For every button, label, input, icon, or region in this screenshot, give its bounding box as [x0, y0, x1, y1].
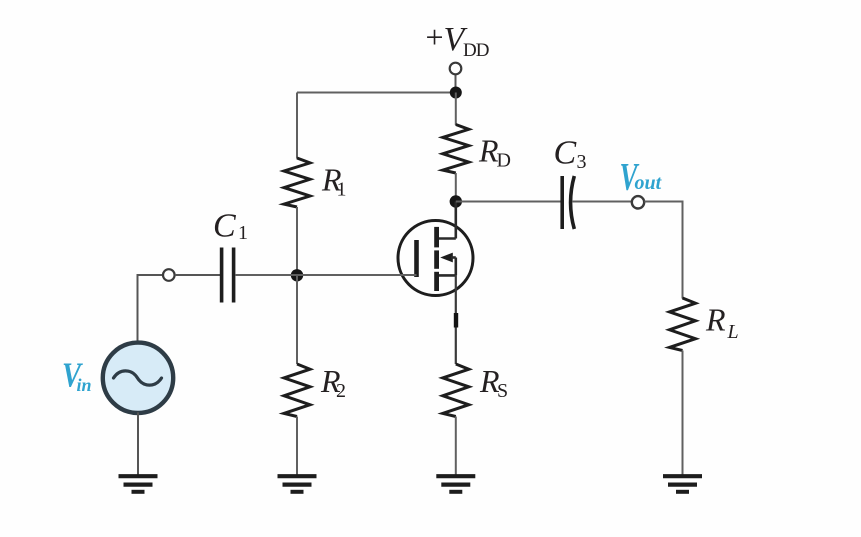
capacitor C3 [562, 176, 574, 229]
wire: C1 to gate node [235, 274, 297, 276]
wire: RL to ground [682, 351, 684, 476]
svg-text:1: 1 [337, 179, 347, 201]
wire: R1 to gate node [296, 207, 298, 275]
transistor Q1: n-channel E-MOSFET [398, 202, 473, 296]
ground (below Vin) [119, 476, 158, 492]
wire: input corner from Vin [138, 275, 163, 343]
wire: dark mark on source lead [454, 313, 458, 328]
svg-text:DD: DD [463, 40, 489, 61]
terminal: Vout open circle [632, 196, 644, 208]
resistor RD [443, 125, 469, 174]
wire: Vin to ground [137, 412, 139, 475]
wire: rail to R1 [296, 93, 298, 159]
resistor R2 [284, 364, 310, 417]
svg-text:D: D [497, 150, 511, 172]
wire: VDD junction to RD [455, 93, 457, 126]
wire: gate lead [297, 274, 417, 276]
node: gate junction [291, 269, 303, 281]
svg-text:in: in [77, 375, 92, 395]
wire: top supply rail [297, 92, 456, 94]
terminal: input open circle [163, 269, 175, 281]
wire: gate node to R2 [296, 275, 298, 364]
node: drain junction [450, 195, 462, 207]
wire: source lead down to RS [455, 275, 457, 364]
svg-text:out: out [635, 172, 663, 194]
svg-text:C: C [554, 135, 577, 172]
resistor R1 [284, 158, 310, 207]
wire: Vout corner to RL [644, 202, 682, 299]
ground (below RS) [436, 476, 475, 492]
resistor RS [443, 364, 469, 417]
wire: RD to drain node [455, 173, 457, 202]
svg-text:+: + [426, 19, 444, 55]
wire: input terminal to C1 [175, 274, 220, 276]
svg-text:3: 3 [577, 151, 587, 173]
source Vin (AC source) [103, 343, 173, 413]
terminal: +VDD open circle [450, 63, 462, 75]
svg-text:S: S [497, 380, 508, 402]
svg-text:R: R [705, 302, 726, 338]
resistor RL [670, 298, 696, 351]
wire: VDD terminal stub [455, 74, 457, 93]
ground (below R2) [278, 476, 317, 492]
capacitor C1 [222, 248, 234, 303]
ground (below RL) [663, 476, 702, 492]
node: VDD junction [450, 87, 462, 99]
svg-text:C: C [213, 208, 236, 245]
wire: R2 to ground [296, 417, 298, 476]
wire: C3 to Vout terminal [572, 201, 632, 203]
svg-text:1: 1 [238, 222, 248, 244]
svg-text:L: L [727, 321, 739, 343]
svg-text:2: 2 [336, 380, 346, 402]
wire: drain node to C3 [456, 201, 561, 203]
wire: RS to ground [455, 417, 457, 476]
